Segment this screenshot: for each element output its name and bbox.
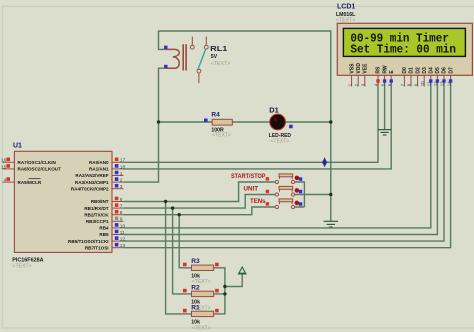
wire power branch [225, 274, 242, 287]
svg-text:3: 3 [120, 184, 123, 190]
push button TENs [250, 198, 302, 209]
svg-text:RA4/T0CKI/CMP2: RA4/T0CKI/CMP2 [71, 186, 109, 191]
pin 18 RA1/AN1 [112, 168, 123, 170]
pin 3 RA4/T0CKI/CMP2 [112, 188, 123, 190]
node RB1/R2 junction [171, 206, 174, 209]
svg-text:LCD1: LCD1 [337, 4, 355, 11]
svg-text:RA7/OSC1/CLKIN: RA7/OSC1/CLKIN [18, 160, 57, 165]
node RB0/R1 junction [164, 200, 167, 203]
wire resistor right-side chain [214, 268, 225, 314]
LCD pin 8 D1 [410, 75, 412, 86]
svg-text:<TEXT>: <TEXT> [12, 263, 31, 269]
svg-text:RB2/TX/CK: RB2/TX/CK [84, 212, 109, 217]
resistor R3 [183, 258, 219, 285]
microcontroller U1 PIC16F628A [1, 143, 126, 270]
svg-text:10: 10 [420, 81, 425, 86]
pin 8 RB2/TX/CK [112, 214, 123, 216]
svg-text:D6: D6 [442, 67, 448, 74]
resistor R1 [183, 304, 219, 331]
LCD pin 5 RW [384, 75, 386, 84]
pin 2 RA3/AN3/CMP1 [112, 181, 123, 183]
pin 7 RB1/RX/DT [112, 207, 123, 209]
svg-text:<TEXT>: <TEXT> [192, 325, 211, 331]
wire RB7 to LCD D7 [123, 83, 450, 248]
pin 1 RA2/AN2/VREF [112, 175, 123, 177]
LCD pin 1 VSS [351, 75, 353, 86]
wire RB5 to LCD D5 [123, 83, 437, 235]
svg-text:RB5: RB5 [99, 232, 109, 237]
svg-text:RA2/AN2/VREF: RA2/AN2/VREF [75, 173, 108, 178]
push button START/STOP [231, 173, 302, 184]
svg-text:<TEXT>: <TEXT> [271, 139, 290, 145]
svg-text:VEE: VEE [363, 63, 369, 74]
svg-text:2: 2 [120, 178, 123, 184]
svg-text:D5: D5 [435, 67, 441, 74]
svg-text:6: 6 [120, 197, 123, 203]
svg-text:12: 12 [433, 81, 438, 86]
svg-text:D2: D2 [415, 67, 421, 74]
node power branch junction [223, 285, 226, 288]
svg-text:4: 4 [4, 178, 7, 184]
svg-text:RA0/AN0: RA0/AN0 [89, 160, 109, 165]
svg-text:7: 7 [120, 204, 123, 210]
pin 6 RB0/INT [112, 201, 123, 203]
wire RB2 to button TENs [123, 207, 275, 215]
node terminal diamond on RA0 wire [322, 159, 326, 167]
power +V terminal [239, 267, 246, 273]
svg-text:RA3/AN3/CMP1: RA3/AN3/CMP1 [75, 180, 109, 185]
svg-text:RA1/AN1: RA1/AN1 [89, 167, 109, 172]
svg-text:11: 11 [427, 81, 432, 86]
wire RB0 to button START/STOP [123, 182, 275, 202]
wire relay-top and right vertical to ground [159, 31, 331, 221]
svg-text:R3: R3 [191, 258, 200, 265]
svg-text:RB4: RB4 [99, 226, 109, 231]
node LED/relay vertical junction [329, 120, 332, 123]
svg-text:RS: RS [376, 66, 382, 74]
svg-text:U1: U1 [13, 143, 22, 150]
pin 15 RA6/OSC2/CLKOUT [3, 168, 15, 170]
svg-text:RB1/RX/DT: RB1/RX/DT [84, 206, 108, 211]
svg-text:VSS: VSS [349, 63, 355, 74]
wire button commons vertical [295, 182, 305, 207]
resistor R2 [183, 284, 219, 311]
LCD pin 13 D6 [443, 75, 445, 84]
node coil/RA3/R4 junction [157, 120, 160, 123]
svg-text:D7: D7 [448, 67, 454, 74]
LCD pin 9 D2 [417, 75, 419, 86]
resistor R4 [204, 112, 232, 139]
wire RB6 to LCD D6 [123, 83, 444, 241]
LCD LCD1 LM016L [336, 4, 472, 87]
svg-text:D3: D3 [422, 67, 428, 74]
svg-text:RL1: RL1 [210, 44, 228, 53]
pin 17 RA0/AN0 [112, 161, 123, 163]
wire RA3 to node row [123, 122, 158, 183]
svg-text:14: 14 [446, 81, 451, 86]
pin 13 RB7/T1OSI [112, 247, 123, 249]
svg-text:1: 1 [120, 171, 123, 177]
svg-text:UNIT: UNIT [244, 186, 259, 193]
LCD pin 6 E [390, 75, 392, 84]
LCD pin 11 D4 [430, 75, 432, 84]
svg-text:PIC16F628A: PIC16F628A [12, 257, 43, 263]
svg-text:13: 13 [120, 243, 126, 249]
svg-text:RW: RW [382, 65, 388, 74]
wire coil bottom to node row [159, 68, 166, 122]
svg-text:Set Time: 00 min: Set Time: 00 min [350, 43, 456, 57]
node RB2/R3 junction [178, 213, 181, 216]
svg-text:RA6/OSC2/CLKOUT: RA6/OSC2/CLKOUT [18, 167, 62, 172]
wire RB4 to LCD D4 [123, 83, 430, 228]
LED D1 [269, 106, 293, 145]
svg-text:16: 16 [1, 158, 7, 164]
pin 4 RA5/MCLR [3, 181, 15, 183]
svg-text:RB3/CCP1: RB3/CCP1 [86, 219, 109, 224]
LCD pin 12 D5 [436, 75, 438, 84]
LCD pin 14 D7 [450, 75, 452, 84]
wire RB0 junction down to R1 [166, 202, 192, 314]
LCD pin 4 RS [377, 75, 379, 84]
svg-text:R2: R2 [191, 284, 200, 291]
LCD pin 2 VDD [357, 75, 359, 86]
svg-text:18: 18 [120, 164, 126, 170]
wire LCD RW to ground [384, 83, 386, 129]
svg-text:17: 17 [120, 158, 126, 164]
svg-text:TENs: TENs [250, 198, 266, 205]
relay RL1 [164, 37, 230, 84]
node R2 right junction [223, 292, 226, 295]
svg-text:15: 15 [1, 164, 7, 170]
svg-text:R4: R4 [211, 112, 220, 119]
svg-text:8: 8 [120, 210, 123, 216]
svg-text:D1: D1 [269, 106, 278, 115]
svg-text:13: 13 [440, 81, 445, 86]
svg-text:D4: D4 [429, 67, 435, 74]
push button UNIT [244, 186, 303, 197]
svg-text:D1: D1 [409, 67, 415, 74]
wire main node row y122 (R4 / LED) [159, 121, 331, 123]
svg-text:START/STOP: START/STOP [231, 173, 266, 180]
svg-text:D0: D0 [402, 67, 408, 74]
wire coil top connect [159, 31, 166, 50]
pin 10 RB4 [112, 227, 123, 229]
node buttons/ground junction [329, 193, 332, 196]
wire button common to ground vertical [304, 194, 330, 196]
pin 16 RA7/OSC1/CLKIN [3, 161, 15, 163]
svg-text:RB6/T1OSO/T1CKI: RB6/T1OSO/T1CKI [68, 239, 109, 244]
svg-text:<TEXT>: <TEXT> [336, 17, 355, 23]
svg-text:VDD: VDD [356, 63, 362, 74]
pin 12 RB6/T1OSO/T1CKI [112, 240, 123, 242]
svg-text:RB7/T1OSI: RB7/T1OSI [85, 245, 109, 250]
wire RB1 to button UNIT [123, 195, 275, 209]
svg-text:RA5/MCLR: RA5/MCLR [18, 180, 42, 185]
svg-text:11: 11 [120, 230, 125, 236]
svg-text:12: 12 [120, 237, 126, 243]
wire RA0 to LCD RS [123, 83, 378, 162]
svg-text:RB0/INT: RB0/INT [91, 199, 109, 204]
svg-text:R1: R1 [191, 304, 200, 311]
ground (buttons common) [324, 221, 338, 227]
svg-text:<TEXT>: <TEXT> [212, 133, 231, 139]
pin 11 RB5 [112, 234, 123, 236]
wire RB1 junction down to R2 [173, 208, 192, 294]
pin 9 RB3/CCP1 [112, 220, 123, 222]
svg-text:5V: 5V [211, 54, 218, 60]
svg-text:10: 10 [120, 223, 126, 229]
LCD pin 7 D0 [403, 75, 405, 86]
wire RA1 to LCD E [123, 83, 391, 169]
svg-text:9: 9 [120, 217, 123, 223]
svg-text:<TEXT>: <TEXT> [211, 61, 230, 67]
wire RB2 junction down to R3 [179, 215, 191, 268]
ground (below RW) [378, 130, 391, 135]
LCD pin 3 VEE [364, 75, 366, 86]
LCD pin 10 D3 [423, 75, 425, 86]
